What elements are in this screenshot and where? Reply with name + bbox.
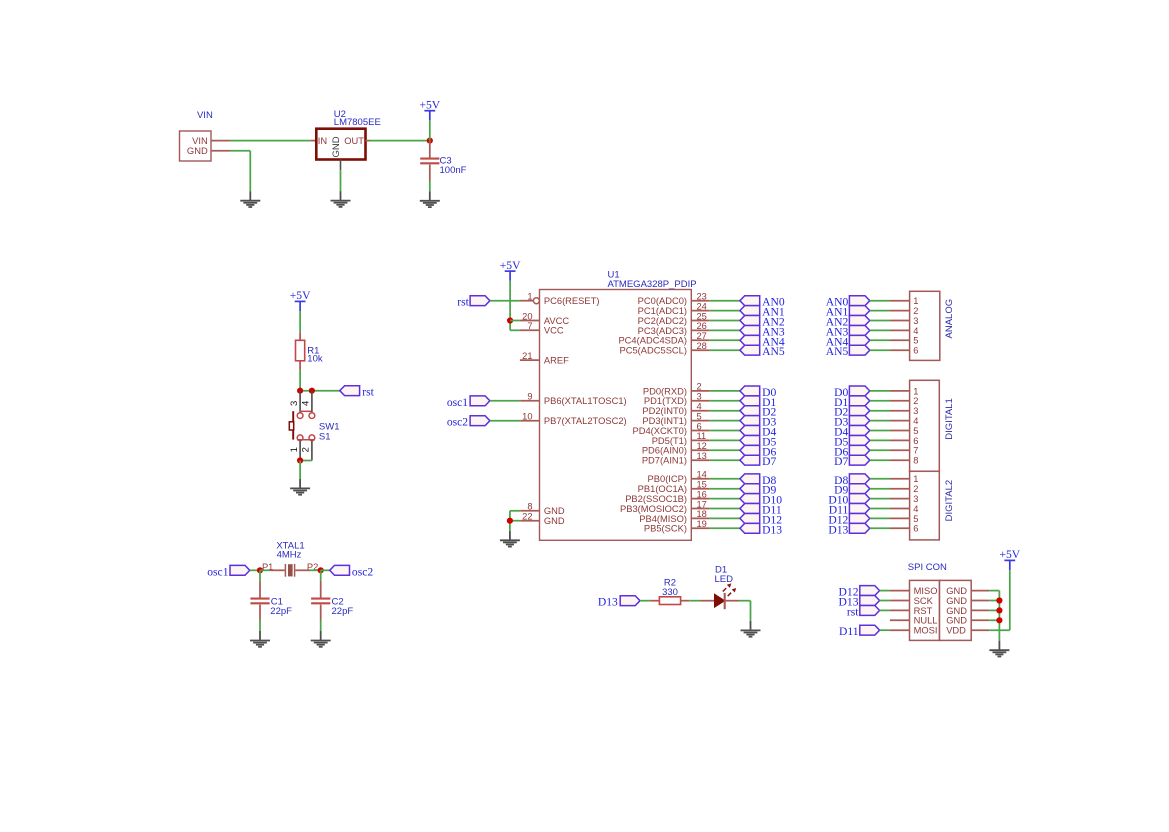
svg-text:D13: D13 [762,523,782,536]
svg-text:23: 23 [697,292,707,302]
svg-text:rst: rst [457,296,469,309]
svg-text:1: 1 [527,292,532,302]
svg-text:NULL: NULL [914,616,938,626]
svg-text:PB1(OC1A): PB1(OC1A) [638,484,687,494]
svg-text:D11: D11 [839,625,859,638]
svg-text:DIGITAL2: DIGITAL2 [944,480,955,522]
svg-text:5: 5 [697,411,702,421]
svg-text:6: 6 [913,524,918,534]
svg-text:2: 2 [697,382,702,392]
svg-text:19: 19 [697,519,707,529]
svg-text:VCC: VCC [544,326,564,336]
svg-text:22pF: 22pF [270,606,292,617]
svg-text:4: 4 [913,416,918,426]
svg-text:8: 8 [913,456,918,466]
svg-text:PC3(ADC3): PC3(ADC3) [638,326,687,336]
svg-text:S1: S1 [319,432,331,443]
svg-text:7: 7 [913,446,918,456]
svg-text:17: 17 [697,499,707,509]
svg-text:PD2(INT0): PD2(INT0) [642,406,687,416]
svg-text:PC0(ADC0): PC0(ADC0) [638,296,687,306]
svg-text:1: 1 [913,386,918,396]
svg-text:PD1(TXD): PD1(TXD) [644,396,687,406]
svg-text:6: 6 [913,346,918,356]
svg-text:20: 20 [522,311,532,321]
svg-text:PD6(AIN0): PD6(AIN0) [642,446,687,456]
svg-text:LM7805EE: LM7805EE [334,117,381,128]
svg-text:D7: D7 [762,455,776,468]
svg-text:3: 3 [913,406,918,416]
svg-text:GND: GND [544,516,565,526]
svg-text:3: 3 [913,494,918,504]
svg-text:SCK: SCK [914,596,934,606]
svg-text:+5V: +5V [999,548,1020,561]
svg-text:GND: GND [946,616,967,626]
svg-text:P1: P1 [262,562,273,572]
svg-text:5: 5 [913,426,918,436]
svg-text:1: 1 [913,296,918,306]
svg-text:4: 4 [913,326,918,336]
svg-text:2: 2 [913,396,918,406]
svg-text:6: 6 [913,436,918,446]
svg-text:3: 3 [697,392,702,402]
svg-text:12: 12 [697,441,707,451]
svg-text:ANALOG: ANALOG [944,299,955,339]
svg-text:5: 5 [913,514,918,524]
svg-text:MISO: MISO [914,586,938,596]
svg-text:GND: GND [946,586,967,596]
svg-text:PD0(RXD): PD0(RXD) [643,386,687,396]
svg-text:14: 14 [697,470,707,480]
svg-text:330: 330 [662,587,678,598]
svg-text:osc2: osc2 [447,416,468,429]
svg-text:D13: D13 [598,596,618,609]
svg-text:6: 6 [697,421,702,431]
svg-text:GND: GND [946,596,967,606]
svg-text:1: 1 [913,474,918,484]
svg-text:VIN: VIN [192,136,208,146]
svg-text:PB4(MISO): PB4(MISO) [639,514,687,524]
svg-text:PC4(ADC4SDA): PC4(ADC4SDA) [618,336,687,346]
svg-text:PC2(ADC2): PC2(ADC2) [638,316,687,326]
svg-text:24: 24 [697,301,707,311]
svg-text:18: 18 [697,509,707,519]
svg-text:SPI CON: SPI CON [908,562,947,573]
svg-text:rst: rst [847,605,859,618]
svg-text:VIN: VIN [197,110,213,121]
svg-text:D13: D13 [828,523,848,536]
svg-text:8: 8 [527,502,532,512]
svg-text:PB6(XTAL1TOSC1): PB6(XTAL1TOSC1) [544,396,627,406]
svg-text:osc2: osc2 [352,566,373,579]
svg-text:LED: LED [715,574,734,585]
svg-text:osc1: osc1 [207,566,228,579]
svg-text:ATMEGA328P_PDIP: ATMEGA328P_PDIP [608,279,697,290]
svg-text:26: 26 [697,321,707,331]
svg-text:PB3(MOSIOC2): PB3(MOSIOC2) [620,504,687,514]
svg-text:5: 5 [913,336,918,346]
svg-text:PC5(ADC5SCL): PC5(ADC5SCL) [619,346,687,356]
svg-text:MOSI: MOSI [914,626,938,636]
svg-text:22: 22 [522,512,532,522]
svg-text:28: 28 [697,341,707,351]
svg-text:PD4(XCKT0): PD4(XCKT0) [632,426,687,436]
svg-text:4: 4 [301,401,312,406]
svg-text:+5V: +5V [500,259,521,272]
svg-text:11: 11 [697,431,707,441]
svg-text:PB7(XTAL2TOSC2): PB7(XTAL2TOSC2) [544,416,627,426]
svg-text:4: 4 [913,504,918,514]
svg-text:1: 1 [289,447,300,452]
svg-text:OUT: OUT [344,136,364,146]
svg-text:PD3(INT1): PD3(INT1) [642,416,687,426]
svg-text:2: 2 [301,447,312,452]
svg-text:PC1(ADC1): PC1(ADC1) [638,306,687,316]
svg-text:DIGITAL1: DIGITAL1 [944,398,955,440]
svg-text:GND: GND [331,136,342,157]
svg-text:PB2(SSOC1B): PB2(SSOC1B) [625,494,687,504]
svg-text:PD7(AIN1): PD7(AIN1) [642,456,687,466]
svg-text:D7: D7 [834,455,848,468]
svg-text:4MHz: 4MHz [277,550,302,561]
svg-text:+5V: +5V [290,289,311,302]
svg-text:osc1: osc1 [447,396,468,409]
svg-text:GND: GND [946,606,967,616]
svg-text:15: 15 [697,480,707,490]
svg-text:AN5: AN5 [826,345,849,358]
svg-text:PD5(T1): PD5(T1) [652,436,687,446]
svg-text:13: 13 [697,451,707,461]
svg-text:7: 7 [527,321,532,331]
svg-text:2: 2 [913,306,918,316]
svg-text:VDD: VDD [946,626,966,636]
svg-text:100nF: 100nF [440,165,467,176]
svg-text:3: 3 [913,316,918,326]
svg-text:RST: RST [914,606,933,616]
svg-text:9: 9 [527,392,532,402]
svg-text:+5V: +5V [419,99,440,112]
svg-text:PB5(SCK): PB5(SCK) [644,524,687,534]
svg-text:rst: rst [362,386,374,399]
svg-text:AREF: AREF [544,356,569,366]
svg-text:2: 2 [913,484,918,494]
svg-text:21: 21 [522,351,532,361]
svg-text:27: 27 [697,331,707,341]
svg-text:GND: GND [544,506,565,516]
svg-text:PB0(ICP): PB0(ICP) [648,474,687,484]
svg-text:AVCC: AVCC [544,316,570,326]
svg-text:22pF: 22pF [332,606,354,617]
svg-text:PC6(RESET): PC6(RESET) [544,296,600,306]
svg-text:GND: GND [187,146,208,156]
svg-text:10k: 10k [307,353,323,364]
svg-text:25: 25 [697,311,707,321]
svg-text:IN: IN [318,136,327,146]
svg-text:10: 10 [522,412,532,422]
svg-text:3: 3 [289,401,300,406]
svg-text:AN5: AN5 [762,345,785,358]
svg-text:16: 16 [697,489,707,499]
svg-text:4: 4 [697,402,702,412]
